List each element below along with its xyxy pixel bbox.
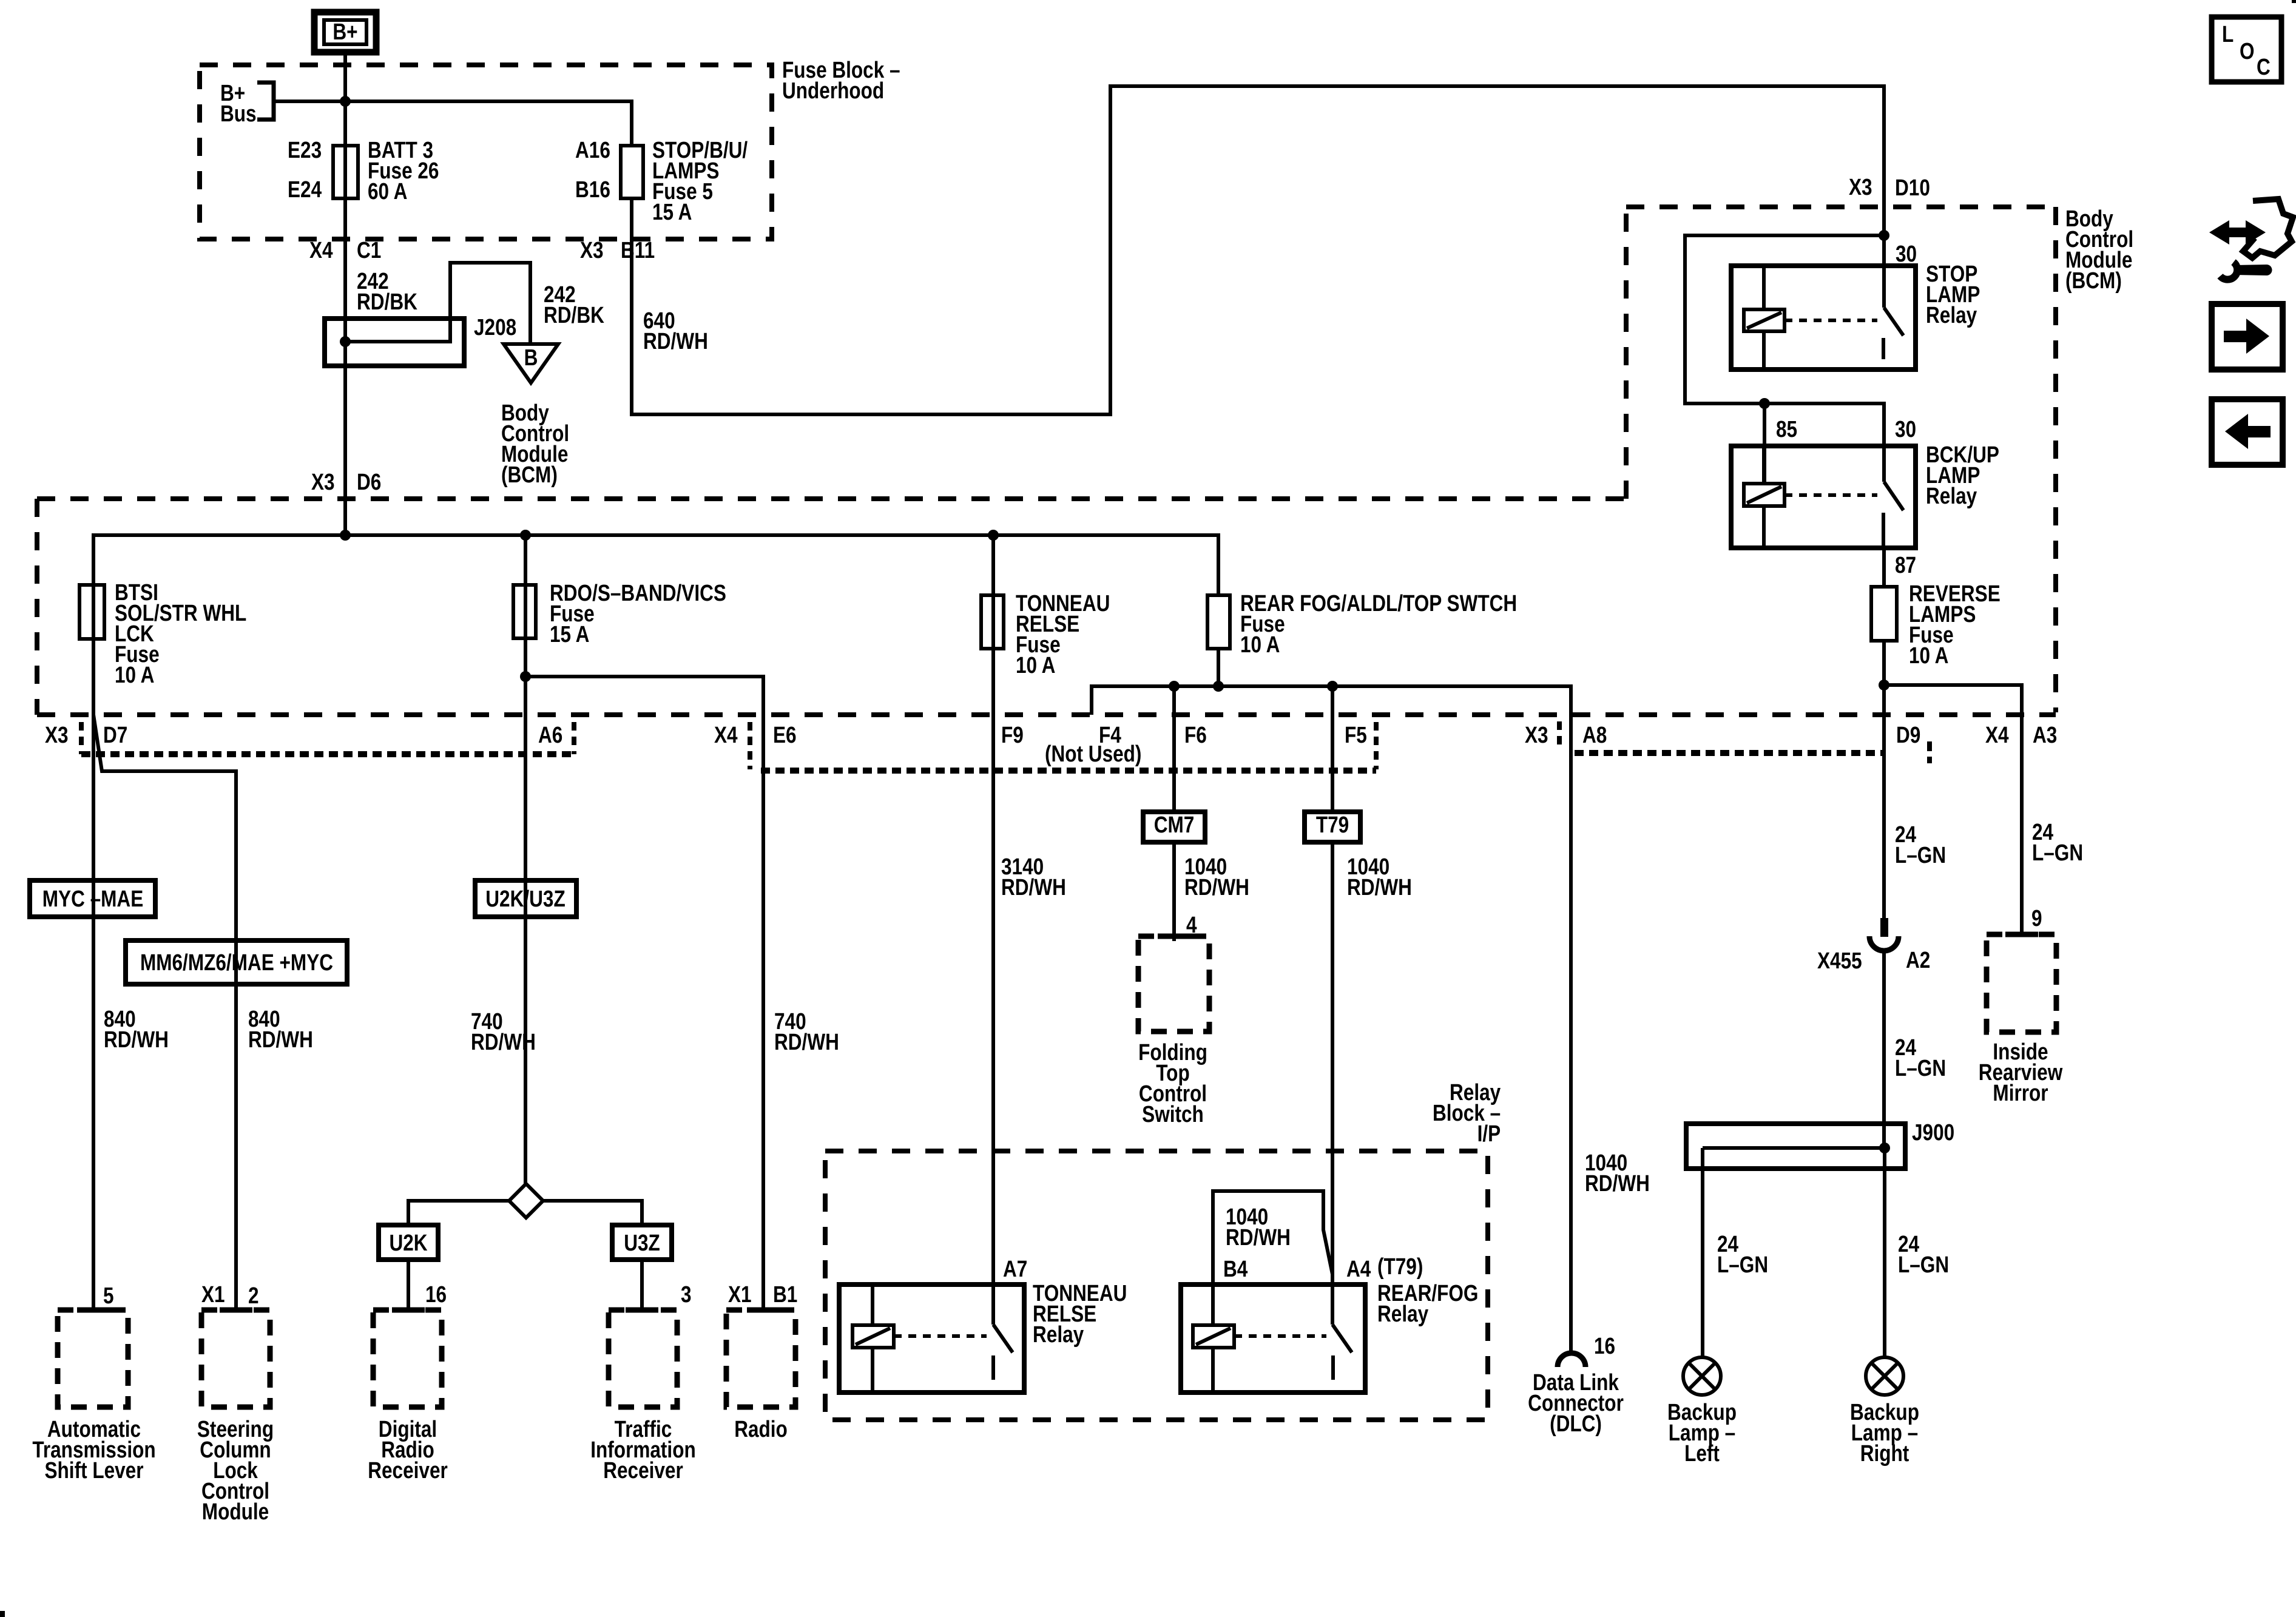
label U3Z — [624, 1233, 660, 1254]
lamp Backup Lamp Right — [1866, 1357, 1903, 1395]
pin D7 — [103, 725, 127, 746]
label REVERSE LAMPS Fuse 10 A — [1909, 584, 2001, 666]
wire 640 RD/WH from B11 to BCM D10 — [632, 86, 1884, 414]
wire X455 to J900 — [1882, 951, 1886, 1148]
STOP relay fixed contact stub — [1882, 338, 1885, 359]
pin X3 row right — [1525, 725, 1548, 746]
label 24 L-GN d9 — [1895, 825, 1946, 866]
REAR/FOG relay coil wire — [1211, 1348, 1215, 1393]
pin 9 — [2031, 908, 2042, 929]
connector separator F5 — [1374, 722, 1379, 769]
label STOP/B/U/LAMPS Fuse 5 15 A — [652, 140, 748, 223]
pin A3 — [2033, 725, 2057, 746]
BCM dashed boundary: mid riser — [1624, 207, 1629, 499]
wire D7 slant branch to steering column module — [93, 715, 236, 1310]
component box radio — [726, 1310, 795, 1407]
pin X4 right — [1985, 725, 2009, 746]
label REAR FOG/ALDL/TOP SWTCH Fuse 10 A — [1240, 593, 1517, 655]
connector separator X3/A8 — [1557, 721, 1562, 750]
legend letter O — [2240, 41, 2255, 62]
relay REAR/FOG Relay box — [1181, 1284, 1365, 1393]
label Radio — [734, 1419, 788, 1440]
TONNEAU relay coil — [853, 1325, 894, 1348]
pin D9 — [1896, 725, 1920, 746]
label 24 L-GN below X455 — [1895, 1038, 1946, 1079]
node B+ bus tap — [340, 96, 351, 107]
connector row dotted line mid section — [761, 768, 1376, 774]
REAR/FOG relay switch blade — [1332, 1325, 1352, 1352]
node D9 bus tap — [1879, 680, 1889, 690]
pin E24 — [288, 180, 322, 200]
wire U3Z to traffic information receiver — [640, 1260, 644, 1310]
pin X1 — [201, 1284, 225, 1305]
pin B11 — [621, 240, 655, 261]
node B triangle Body Control Module — [504, 344, 558, 383]
splice diamond U2K/U3Z — [509, 1184, 543, 1218]
BCK/UP relay coil wire — [1762, 446, 1766, 548]
fuse RDO/S-BAND/VICS — [513, 585, 536, 638]
B+ power symbol box — [314, 12, 376, 52]
fuse STOP/B/U/LAMPS Fuse 5 — [621, 146, 643, 198]
pin X1 radio — [728, 1284, 752, 1305]
pin E23 — [288, 140, 322, 161]
TONNEAU relay dashed link — [894, 1334, 987, 1338]
wire J900 internal — [1703, 1146, 1885, 1150]
fuse REAR FOG/ALDL/TOP SWTCH — [1207, 595, 1230, 649]
legend left arrow box — [2212, 399, 2283, 465]
relay TONNEAU RELSE Relay box — [839, 1284, 1024, 1393]
BCK/UP relay switch blade — [1884, 482, 1903, 510]
label 640 RD/WH — [643, 311, 708, 352]
label T79 ref — [1377, 1257, 1423, 1277]
connector row dotted line left section — [81, 751, 574, 757]
page corner mark — [0, 1611, 5, 1617]
label 1040 RD/WH flag — [1226, 1207, 1291, 1248]
label Automatic Transmission Shift Lever — [32, 1419, 155, 1481]
node bus tap TONNEAU fuse — [988, 530, 999, 541]
wire main feed bus inside BCM — [93, 535, 1218, 595]
component box folding top control switch — [1138, 936, 1209, 1031]
STOP relay coil — [1744, 309, 1784, 331]
pin 3 — [681, 1284, 692, 1305]
label B triangle — [524, 348, 538, 368]
pin B16 — [575, 180, 610, 200]
label Inside Rearview Mirror — [1979, 1042, 2063, 1104]
label 24 L-GN lamp right — [1898, 1234, 1949, 1275]
pin X3 — [1849, 177, 1872, 198]
legend left arrow — [2225, 414, 2271, 449]
component box digital radio receiver — [373, 1310, 442, 1407]
pin A4 — [1346, 1259, 1371, 1280]
pin B1 terminal bar — [747, 1308, 780, 1313]
label X455 — [1817, 951, 1862, 971]
pin F6 — [1184, 725, 1207, 746]
BCM dashed boundary: right edge — [2053, 207, 2058, 712]
label B+ Bus — [220, 83, 257, 124]
node D10 to stop relay loop — [1879, 230, 1889, 241]
label BCK/UP LAMP Relay — [1926, 445, 1999, 507]
pin X4 — [309, 240, 333, 261]
pin A8 — [1582, 725, 1607, 746]
label Relay Block I/P — [1433, 1082, 1501, 1144]
pin D6 — [357, 472, 381, 493]
label Steering Column Lock Control Module — [197, 1419, 274, 1522]
B+ Bus bracket — [257, 83, 274, 120]
pin 85 — [1776, 419, 1797, 440]
pin A16 — [575, 140, 610, 161]
wire 87 to REVERSE fuse — [1882, 548, 1886, 587]
label RDO/S-BAND/VICS Fuse 15 A — [550, 583, 726, 645]
wire RDO fuse down through A6 to U2K/U3Z splice — [524, 535, 527, 1184]
label B+ — [333, 22, 357, 42]
label Traffic Information Receiver — [590, 1419, 695, 1481]
BCM dashed boundary: left edge — [35, 499, 39, 715]
legend right arrow — [2224, 319, 2269, 354]
wire B+ bus horizontal to STOP/B/U fuse — [274, 101, 632, 146]
fuse BATT 3 Fuse 26 — [333, 146, 358, 198]
fuse TONNEAU RELSE — [981, 595, 1004, 649]
label J900 — [1912, 1122, 1954, 1143]
wire F5 to T79 — [1331, 686, 1334, 812]
pin X4 row — [714, 725, 738, 746]
fuse block underhood dashed box — [200, 65, 772, 239]
pin 16 — [425, 1284, 447, 1305]
pin 87 — [1895, 555, 1916, 576]
REAR/FOG relay fixed contact stub — [1331, 1355, 1335, 1380]
relay block I/P dashed box — [825, 1151, 1488, 1420]
label MYC -MAE — [42, 889, 143, 910]
TONNEAU relay fixed contact stub — [991, 1355, 995, 1380]
pin X3 — [580, 240, 604, 261]
pin 5 terminal bar — [77, 1308, 110, 1313]
node F6 tap — [1169, 681, 1180, 692]
node J900 splice — [1879, 1143, 1890, 1153]
node bus tap RDO fuse — [520, 530, 531, 541]
pin 30 stop relay — [1896, 244, 1917, 265]
pin D10 — [1895, 178, 1930, 198]
pin 3 terminal bar — [626, 1308, 658, 1313]
label Not Used — [1045, 744, 1141, 765]
label 1040 RD/WH dlc — [1585, 1153, 1650, 1194]
label U2K/U3Z — [485, 889, 565, 910]
lamp Backup Lamp Left — [1683, 1357, 1721, 1395]
component box steering column lock control module — [201, 1310, 270, 1407]
REAR/FOG relay dashed link — [1234, 1334, 1326, 1338]
pin B4 — [1223, 1259, 1248, 1280]
wire J900 to right backup lamp — [1883, 1148, 1886, 1357]
wire BTSI fuse to D7 and down to shift lever — [92, 585, 95, 1310]
node F5 tap — [1327, 681, 1338, 692]
label Folding Top Control Switch — [1138, 1042, 1207, 1125]
label STOP LAMP Relay — [1926, 264, 1980, 326]
pin 2 terminal bar — [220, 1308, 252, 1313]
wire diamond to U2K — [408, 1201, 509, 1225]
box U3Z — [612, 1225, 672, 1260]
BCK/UP relay coil slash — [1747, 487, 1781, 503]
pin 30 bckup relay — [1895, 419, 1916, 440]
label Data Link Connector DLC — [1528, 1372, 1624, 1434]
connector X455 pin — [1880, 918, 1888, 937]
label TONNEAU RELSE Relay — [1033, 1283, 1127, 1345]
label 242 RD/BK — [357, 271, 417, 312]
component box traffic information receiver — [609, 1310, 677, 1407]
component box inside rearview mirror — [1987, 934, 2056, 1032]
label 740 RD/WH radio — [774, 1011, 839, 1053]
STOP relay coil wire — [1762, 266, 1766, 370]
node REAR FOG fuse to bus — [1213, 681, 1224, 692]
wire J900 to left backup lamp — [1701, 1148, 1704, 1357]
box CM7 — [1143, 812, 1205, 842]
connector row dotted line right section — [1575, 750, 1882, 756]
label Backup Lamp Right — [1850, 1402, 1919, 1464]
label 840 RD/WH left — [104, 1009, 169, 1050]
wire F-bus horizontal — [1092, 686, 1571, 1352]
wire REVERSE fuse to D9 and X455 — [1882, 641, 1886, 918]
wire loop to BCK/UP relay 85/30 — [1685, 235, 1884, 482]
STOP relay coil slash — [1747, 312, 1781, 328]
pin X3 — [311, 472, 335, 493]
icon repair info hand and wrench — [2209, 199, 2293, 280]
pin A7 — [1003, 1259, 1027, 1280]
TONNEAU relay coil slash — [856, 1328, 890, 1345]
connector separator D9 — [1927, 741, 1932, 763]
REAR/FOG relay coil — [1193, 1325, 1234, 1348]
pin 5 — [103, 1286, 114, 1306]
wire T79 down to relay A4 — [1331, 842, 1334, 1325]
label 840 RD/WH right — [248, 1009, 313, 1050]
pin F4 — [1099, 725, 1121, 746]
label MM6/MZ6/MAE +MYC — [140, 953, 333, 973]
wire REAR FOG fuse to F-bus — [1217, 649, 1220, 686]
TONNEAU relay coil wire — [871, 1284, 874, 1393]
pin F9 — [1001, 725, 1024, 746]
STOP relay dashed link — [1784, 319, 1877, 322]
wire U2K to digital radio receiver — [407, 1260, 410, 1310]
label Fuse Block Underhood — [782, 60, 900, 101]
label Backup Lamp Left — [1667, 1402, 1737, 1464]
pin 2 — [248, 1286, 259, 1306]
wire TONNEAU fuse through F9 to relay A7 — [991, 535, 995, 1325]
wire CM7 to folding top switch pin 4 — [1172, 842, 1176, 941]
wire B+ feed down to bus — [343, 55, 347, 533]
label 242 RD/BK — [544, 285, 604, 326]
wire F6 to CM7 — [1172, 686, 1176, 812]
node J208 splice — [340, 336, 351, 347]
box MM6/MZ6/MAE +MYC — [126, 940, 347, 984]
fuse BTSI SOL/STR WHL LCK — [79, 585, 104, 639]
connector separator A6 — [572, 722, 576, 754]
label 24 L-GN lamp left — [1717, 1234, 1768, 1275]
box MYC -MAE — [30, 880, 155, 917]
legend letter C — [2257, 57, 2271, 78]
pin E6 — [773, 725, 797, 746]
REAR/FOG relay coil slash — [1196, 1328, 1231, 1345]
TONNEAU relay switch blade — [993, 1325, 1013, 1352]
connector X455 socket arc — [1869, 936, 1899, 951]
label Body Control Module BCM left — [501, 403, 569, 485]
label U2K — [389, 1233, 427, 1254]
STOP relay switch blade — [1884, 308, 1903, 336]
label CM7 — [1154, 815, 1195, 836]
page corner mark top right — [2292, 0, 2296, 3]
pin 9 terminal bar — [2005, 932, 2038, 937]
label BTSI SOL/STR WHL LCK Fuse 10 A — [115, 582, 246, 686]
pin A2 — [1906, 950, 1930, 971]
pin A6 — [538, 725, 562, 746]
pin 4 — [1186, 915, 1197, 936]
LOC legend box — [2212, 17, 2281, 82]
pin B1 — [773, 1284, 797, 1305]
BCK/UP relay dashed link — [1784, 493, 1877, 497]
BCM dashed boundary: top edge — [1626, 204, 2056, 209]
BCK/UP relay coil — [1744, 484, 1784, 506]
fuse REVERSE LAMPS — [1871, 587, 1897, 641]
connector DLC socket arc — [1558, 1353, 1585, 1367]
wire 85 into BCK/UP coil — [1763, 403, 1766, 484]
wire diamond to U3Z — [543, 1201, 642, 1225]
label BATT 3 Fuse 26 60 A — [368, 140, 439, 202]
node radio branch tap — [520, 671, 531, 682]
BCM dashed boundary: top-mid edge — [37, 496, 1626, 501]
connector separator X4/E6 — [748, 722, 752, 769]
wire radio branch through E6 — [525, 677, 763, 1310]
label 1040 RD/WH mid — [1184, 857, 1249, 898]
label TONNEAU RELSE Fuse 10 A — [1016, 593, 1110, 676]
label 1040 RD/WH right — [1347, 857, 1412, 898]
splice J900 box — [1686, 1124, 1905, 1169]
relay BCK/UP LAMP Relay box — [1731, 446, 1916, 548]
pin 16 dlc — [1594, 1336, 1615, 1357]
splice J208 box — [325, 319, 464, 366]
pin 4 terminal bar — [1158, 934, 1190, 939]
label J208 — [474, 317, 516, 338]
BCM connector row long-dash line — [37, 712, 2056, 717]
wire J208 jog to BCM triangle — [345, 263, 530, 344]
BCK/UP relay 87 contact — [1882, 513, 1885, 548]
pin 16 terminal bar — [392, 1308, 425, 1313]
node 85 tap — [1759, 398, 1770, 409]
label REAR/FOG Relay — [1377, 1283, 1478, 1325]
label 24 L-GN a3 — [2032, 822, 2083, 863]
connector separator X3/D7 — [79, 722, 84, 754]
pin C1 — [357, 240, 381, 261]
label 3140 RD/WH — [1001, 857, 1066, 898]
component box automatic transmission shift lever — [58, 1310, 128, 1407]
box T79 — [1305, 812, 1360, 842]
relay STOP LAMP Relay box — [1731, 266, 1916, 370]
wire branch to mirror A3 — [1884, 685, 2022, 934]
label Digital Radio Receiver — [368, 1419, 448, 1481]
pin F5 — [1345, 725, 1367, 746]
label Body Control Module BCM right — [2065, 209, 2133, 291]
legend right arrow box — [2212, 304, 2283, 370]
box U2K — [379, 1225, 438, 1260]
label T79 — [1316, 815, 1349, 836]
node bus tap D6 — [340, 530, 351, 541]
legend letter L — [2222, 24, 2234, 45]
wire flag jog to relay B4 — [1213, 1191, 1332, 1325]
box U2K/U3Z — [475, 880, 576, 917]
label 740 RD/WH left — [471, 1011, 536, 1053]
pin X3 row — [45, 725, 69, 746]
